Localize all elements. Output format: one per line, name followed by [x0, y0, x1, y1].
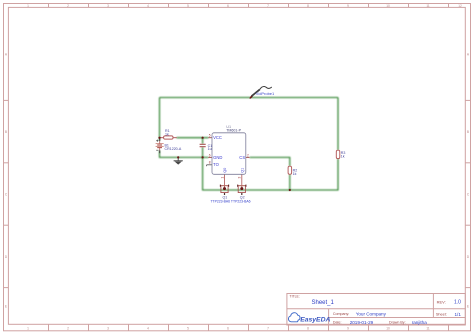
svg-text:2019-01-29: 2019-01-29: [350, 320, 374, 325]
svg-text:A: A: [5, 52, 8, 56]
wire right vertical upper: [337, 98, 339, 151]
svg-text:9: 9: [347, 4, 349, 8]
touch pad Q1 symbol: [220, 185, 228, 195]
EasyEDA logo: [288, 313, 330, 324]
svg-text:10: 10: [386, 4, 390, 8]
svg-text:Sheet_1: Sheet_1: [312, 300, 335, 306]
svg-text:6: 6: [227, 4, 229, 8]
voltage probe VolProbe1 symbol: [249, 86, 272, 98]
svg-text:1u: 1u: [208, 147, 212, 151]
svg-text:E: E: [5, 304, 7, 308]
svg-text:8: 8: [307, 4, 309, 8]
svg-text:4: 4: [147, 327, 149, 331]
svg-text:1: 1: [220, 177, 224, 179]
svg-text:7: 7: [267, 4, 269, 8]
svg-text:GND: GND: [213, 155, 222, 160]
junction dot C1 top (crisp): [202, 137, 204, 139]
resistor R2 body: [288, 166, 292, 174]
svg-text:11: 11: [426, 4, 430, 8]
junction dot VCC/R1 (crisp): [158, 137, 160, 139]
svg-text:2: 2: [67, 4, 69, 8]
svg-text:EasyEDA: EasyEDA: [300, 317, 330, 324]
wire top net: [160, 97, 339, 99]
svg-text:5: 5: [187, 327, 189, 331]
svg-text:1k: 1k: [341, 154, 345, 158]
wire R1 to VCC pin: [177, 137, 209, 139]
resistor R3 body: [336, 150, 340, 158]
junction dot ground (crisp): [177, 156, 179, 158]
svg-text:REV:: REV:: [437, 299, 446, 304]
svg-text:Drawn By:: Drawn By:: [389, 321, 406, 325]
svg-text:CR1220-A: CR1220-A: [165, 147, 182, 151]
svg-text:2: 2: [247, 153, 249, 157]
svg-text:TO: TO: [213, 162, 219, 167]
svg-text:5: 5: [209, 134, 211, 138]
ground symbol: [174, 157, 183, 164]
wire C1 upper lead: [202, 138, 204, 144]
svg-text:Q1: Q1: [240, 168, 244, 173]
wire CS to R2: [250, 157, 290, 166]
svg-text:10: 10: [386, 327, 390, 331]
svg-text:12: 12: [458, 4, 462, 8]
wire C1 lower lead: [202, 147, 204, 157]
capacitor C1 plates: [200, 144, 206, 146]
svg-text:1.0: 1.0: [454, 300, 461, 306]
svg-text:A: A: [467, 52, 470, 56]
title block lines: [287, 294, 465, 326]
wire right vertical lower: [290, 159, 338, 190]
svg-text:3: 3: [107, 327, 109, 331]
pin 5 VCC line: [208, 137, 212, 139]
svg-text:Company:: Company:: [333, 312, 349, 316]
svg-text:ranjitha: ranjitha: [412, 320, 428, 325]
svg-text:6: 6: [209, 153, 211, 157]
svg-text:VolProbe1: VolProbe1: [256, 91, 275, 96]
svg-text:5: 5: [187, 4, 189, 8]
title block labels: [290, 295, 447, 325]
svg-text:1k: 1k: [165, 132, 169, 136]
pin 6 GND line: [208, 156, 212, 158]
svg-text:11: 11: [426, 327, 430, 331]
svg-text:8: 8: [307, 327, 309, 331]
svg-text:3: 3: [238, 177, 242, 179]
svg-text:7: 7: [267, 327, 269, 331]
svg-text:1: 1: [27, 4, 29, 8]
svg-text:1/1: 1/1: [455, 312, 462, 317]
svg-text:VCC: VCC: [213, 135, 222, 140]
svg-text:C: C: [5, 193, 8, 197]
wire bottom net: [203, 157, 290, 190]
svg-text:Q0: Q0: [223, 168, 227, 173]
wire R2 lower lead: [289, 174, 291, 190]
pin 8 TO line: [207, 165, 212, 166]
junction dot R2 bottom (crisp): [289, 189, 291, 191]
svg-text:Date:: Date:: [333, 321, 342, 325]
pin 2 CS line: [246, 156, 250, 158]
pin 1 line (bottom left): [224, 174, 226, 185]
wire battery bottom to GND pin: [160, 151, 209, 158]
resistor R1 body: [160, 136, 177, 139]
junction dot pad Q1 (crisp): [223, 188, 225, 190]
svg-text:1k: 1k: [293, 172, 297, 176]
svg-text:TM601-P: TM601-P: [226, 129, 241, 133]
svg-text:6: 6: [227, 327, 229, 331]
wire left vertical: [159, 98, 161, 141]
battery B1 symbol: [156, 138, 164, 153]
svg-text:B: B: [467, 130, 469, 134]
pin 3 line (bottom right): [241, 174, 243, 185]
svg-text:TTP223-BA6 TTP223-BA6: TTP223-BA6 TTP223-BA6: [210, 200, 250, 204]
svg-text:E: E: [467, 304, 469, 308]
svg-text:1: 1: [27, 327, 29, 331]
svg-text:B: B: [5, 130, 7, 134]
IC U1 box outline: [212, 133, 246, 175]
svg-text:2: 2: [67, 327, 69, 331]
svg-text:4: 4: [147, 4, 149, 8]
svg-text:Your Company: Your Company: [356, 311, 387, 316]
junction dot C1 bottom (crisp): [202, 156, 204, 158]
title block values: [312, 300, 462, 325]
touch pad Q2 symbol: [238, 185, 246, 195]
svg-text:8: 8: [209, 161, 211, 165]
svg-text:9: 9: [347, 327, 349, 331]
svg-text:TITLE:: TITLE:: [290, 295, 300, 299]
svg-text:3: 3: [107, 4, 109, 8]
junction dot pad Q2 (crisp): [241, 188, 243, 190]
svg-text:CS: CS: [239, 155, 245, 160]
svg-text:C: C: [467, 193, 470, 197]
svg-text:D: D: [5, 255, 8, 259]
svg-text:D: D: [467, 255, 470, 259]
svg-text:Sheet:: Sheet:: [436, 313, 447, 317]
